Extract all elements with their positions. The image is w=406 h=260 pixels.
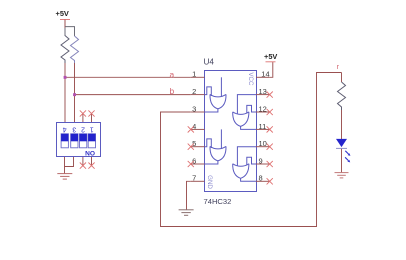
svg-text:3: 3 bbox=[72, 126, 76, 133]
svg-text:9: 9 bbox=[259, 156, 263, 165]
svg-text:+5V: +5V bbox=[56, 9, 69, 18]
svg-text:6: 6 bbox=[192, 156, 196, 165]
svg-text:3: 3 bbox=[192, 104, 196, 113]
svg-text:8: 8 bbox=[259, 174, 263, 183]
svg-text:7: 7 bbox=[192, 174, 196, 183]
svg-text:2: 2 bbox=[81, 126, 85, 133]
svg-text:5: 5 bbox=[192, 139, 196, 148]
svg-text:2: 2 bbox=[192, 87, 196, 96]
svg-text:14: 14 bbox=[261, 70, 269, 79]
svg-text:12: 12 bbox=[259, 104, 267, 113]
svg-text:13: 13 bbox=[259, 87, 267, 96]
svg-text:VCC: VCC bbox=[247, 72, 254, 86]
svg-text:4: 4 bbox=[63, 126, 67, 133]
svg-text:74HC32: 74HC32 bbox=[204, 197, 232, 206]
svg-text:U4: U4 bbox=[204, 57, 215, 66]
svg-text:1: 1 bbox=[90, 126, 94, 133]
svg-text:4: 4 bbox=[192, 122, 196, 131]
svg-text:ON: ON bbox=[85, 149, 95, 156]
svg-text:GND: GND bbox=[206, 175, 213, 189]
svg-text:b: b bbox=[170, 86, 175, 96]
svg-text:10: 10 bbox=[259, 139, 267, 148]
svg-text:11: 11 bbox=[259, 122, 267, 131]
svg-text:1: 1 bbox=[192, 70, 196, 79]
svg-text:+5V: +5V bbox=[264, 52, 277, 61]
svg-text:a: a bbox=[170, 69, 175, 79]
